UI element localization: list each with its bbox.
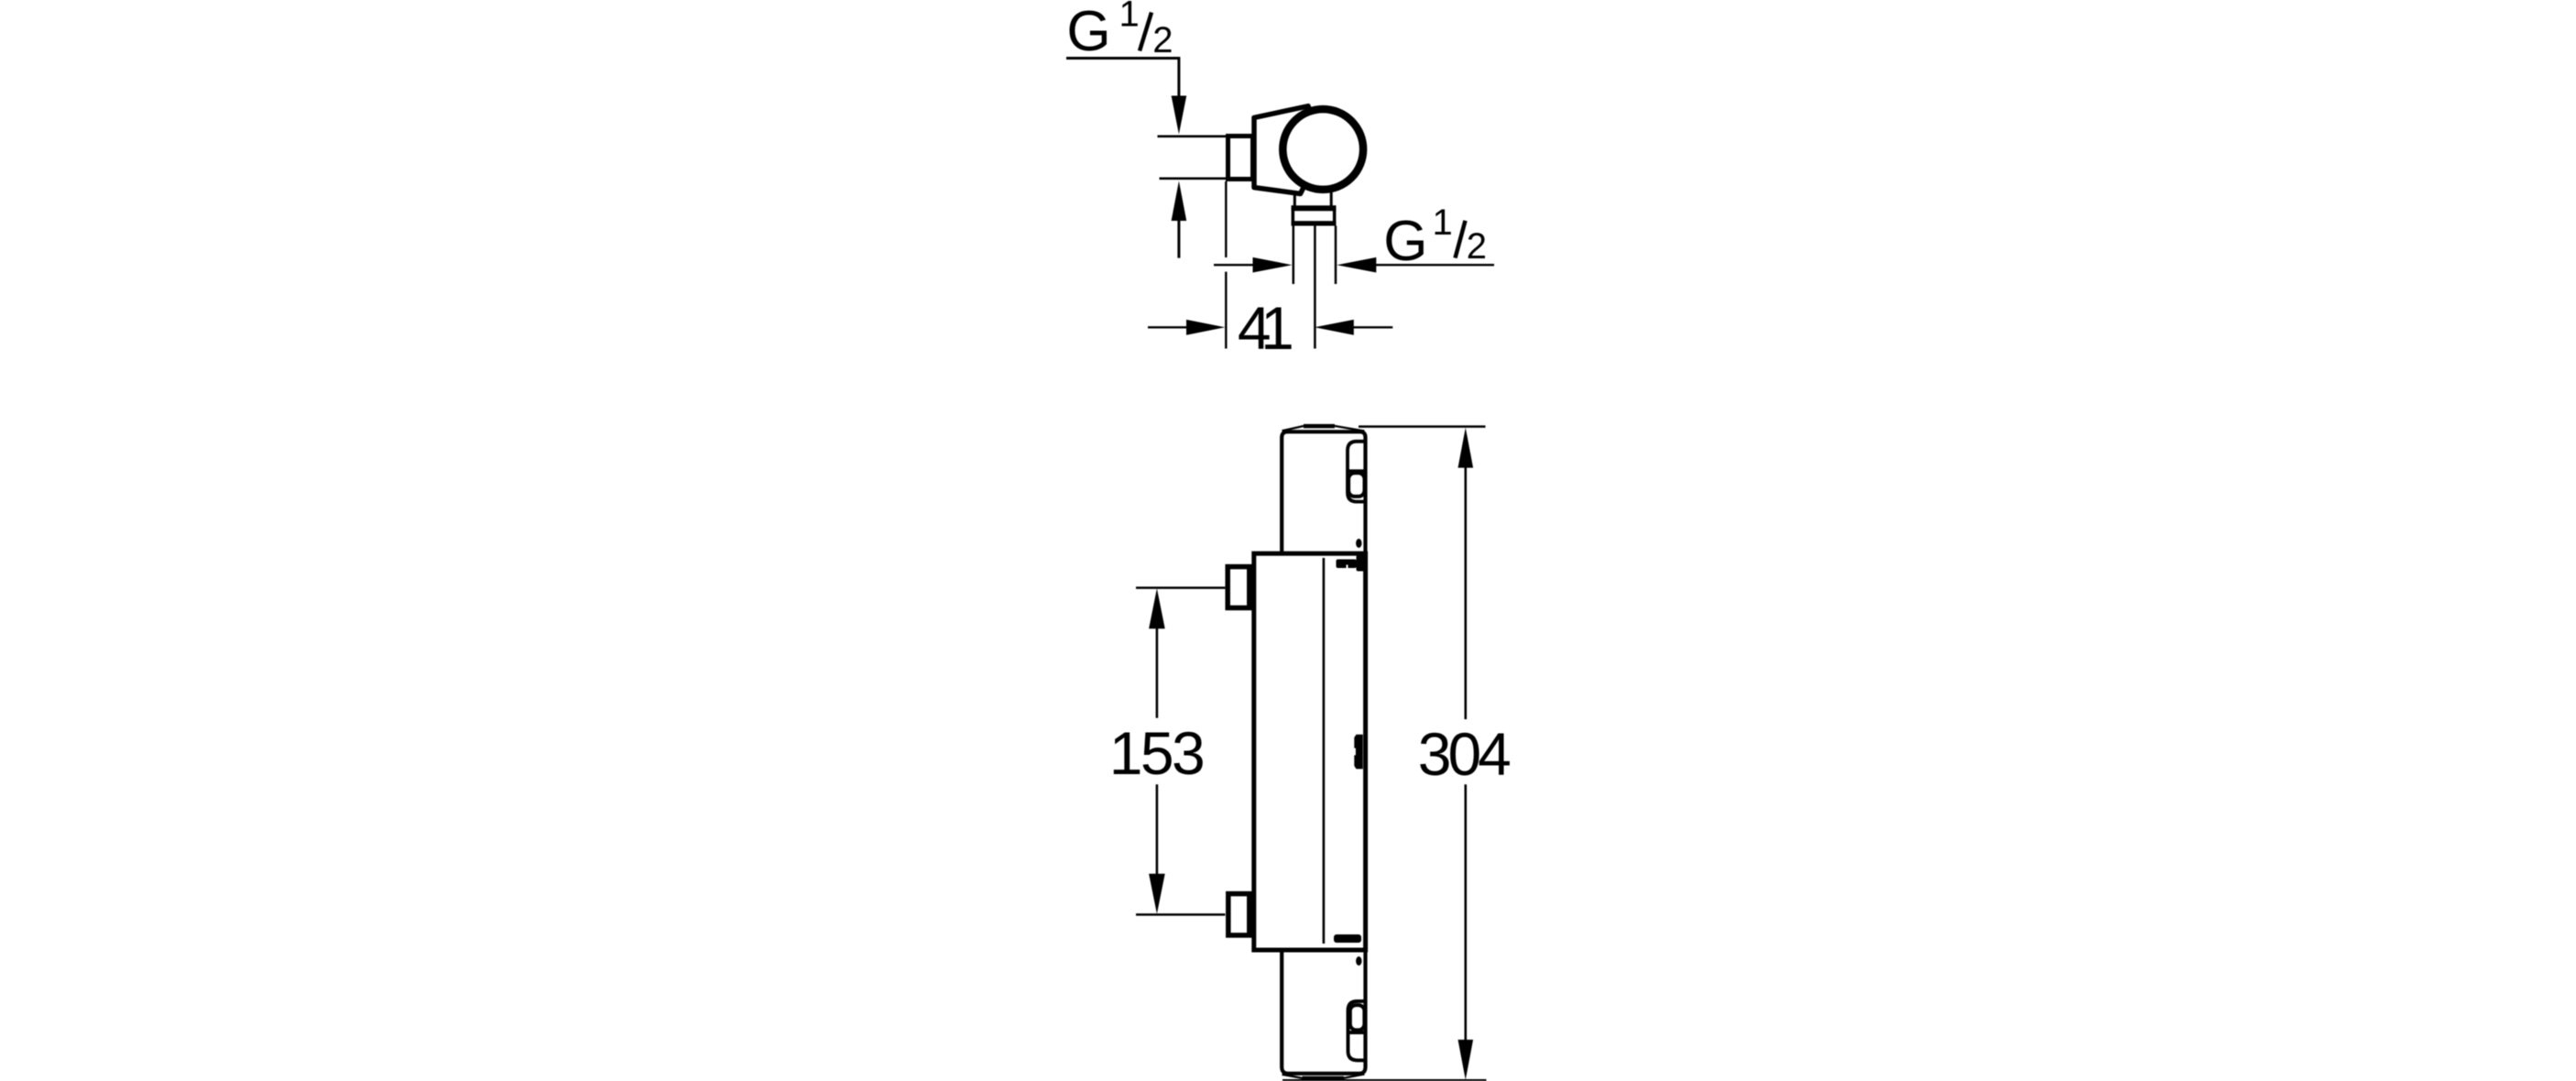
extension line, top nub centre (153 dim) bbox=[1136, 586, 1225, 589]
top knob slot divider bbox=[1347, 469, 1367, 473]
bar body bbox=[1254, 553, 1366, 950]
valve body (trapezoid) bbox=[1254, 106, 1323, 194]
bottom knob cap plateau bbox=[1303, 1076, 1344, 1080]
dimension line G 1/2 (pipe thread) bbox=[1214, 257, 1494, 273]
top inlet nub (wall connection) bbox=[1228, 567, 1250, 608]
svg-text:G: G bbox=[1066, 0, 1110, 63]
extension line, bottom of bar (304 dim) bbox=[1283, 1079, 1487, 1081]
svg-text:G: G bbox=[1383, 210, 1427, 273]
collar (hose union) bbox=[1292, 205, 1337, 225]
union nut (wall fitting) bbox=[1228, 136, 1253, 180]
leader line from G 1/2 label bbox=[1066, 59, 1186, 135]
top knob cap plateau bbox=[1304, 424, 1335, 429]
svg-text:153: 153 bbox=[1109, 719, 1206, 787]
extension line, top face of union nut bbox=[1158, 136, 1228, 138]
extension line, top of bar (304 dim) bbox=[1359, 425, 1486, 428]
clamp screw at body top bbox=[1337, 555, 1365, 572]
svg-text:2: 2 bbox=[1152, 20, 1173, 60]
svg-text:41: 41 bbox=[1238, 294, 1294, 362]
small dot above body top edge bbox=[1356, 539, 1361, 548]
handle knob (circle) bbox=[1283, 109, 1363, 190]
top knob cap silhouette bbox=[1283, 426, 1365, 431]
dimension line 304 with arrows bbox=[1458, 428, 1474, 1080]
dimension 41 line with arrows bbox=[1148, 320, 1392, 335]
bottom knob grip slot bbox=[1348, 1001, 1368, 1061]
outlet pipe walls bbox=[1293, 226, 1336, 285]
bottom inlet nub (wall connection) bbox=[1228, 894, 1250, 935]
top knob grip button bbox=[1348, 473, 1364, 497]
outlet neck below knob bbox=[1294, 191, 1331, 207]
bottom knob cap silhouette bbox=[1283, 1075, 1365, 1078]
svg-text:2: 2 bbox=[1467, 226, 1487, 267]
small dot below body bottom edge bbox=[1356, 956, 1361, 966]
top knob grip slot bbox=[1348, 442, 1368, 502]
dimension line 153 with arrows bbox=[1149, 588, 1165, 913]
svg-text:304: 304 bbox=[1418, 720, 1512, 788]
extension line, bottom nub centre (153 dim) bbox=[1136, 913, 1225, 916]
eco clip on right edge of body bbox=[1354, 735, 1362, 770]
bottom knob (volume handle) bbox=[1282, 947, 1365, 1074]
label G 1/2 (upper inlet thread) bbox=[1066, 0, 1173, 63]
bottom knob slot divider bbox=[1347, 1031, 1367, 1034]
black bar at body bottom bbox=[1334, 934, 1361, 943]
body front edge line bbox=[1323, 558, 1326, 944]
up arrow below union nut bbox=[1172, 181, 1187, 258]
bottom knob grip button bbox=[1350, 1005, 1365, 1030]
outlet pipe centre line bbox=[1314, 226, 1316, 349]
svg-text:1: 1 bbox=[1433, 202, 1453, 243]
top knob (temperature handle) bbox=[1282, 431, 1365, 555]
extension line from wall face (for 41 dim) bbox=[1225, 181, 1227, 349]
extension line, bottom face of union nut bbox=[1160, 178, 1228, 180]
label G 1/2 (outlet thread) bbox=[1383, 202, 1487, 273]
svg-text:1: 1 bbox=[1119, 0, 1140, 35]
